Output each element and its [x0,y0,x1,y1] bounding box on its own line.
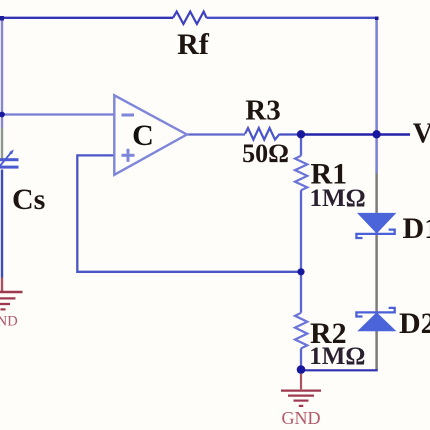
svg-text:GND: GND [282,408,321,428]
svg-text:Rf: Rf [177,28,210,61]
svg-text:GND: GND [0,314,18,330]
svg-text:C: C [132,119,154,152]
svg-text:Cs: Cs [12,183,45,216]
svg-text:1MΩ: 1MΩ [310,185,366,212]
svg-text:50Ω: 50Ω [242,139,289,168]
svg-text:D2: D2 [399,307,430,340]
svg-text:R3: R3 [245,94,280,126]
svg-text:1MΩ: 1MΩ [309,343,365,370]
svg-text:D1: D1 [403,212,430,245]
svg-text:V: V [413,119,430,150]
